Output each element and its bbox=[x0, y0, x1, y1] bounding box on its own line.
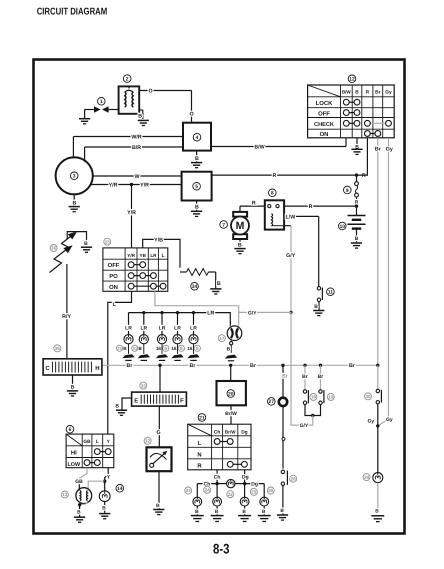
ground (battery) bbox=[351, 229, 362, 249]
component label 10 bbox=[339, 222, 347, 230]
ground (motor) bbox=[234, 239, 245, 254]
wire W/R bbox=[73, 134, 183, 158]
svg-text:B: B bbox=[84, 241, 88, 247]
wire headlight common bbox=[78, 501, 88, 507]
wire Gy (gray) main switch bbox=[378, 138, 393, 426]
wire Br/W bbox=[225, 405, 237, 424]
turn signal lamp 25 bbox=[240, 497, 249, 506]
svg-text:B: B bbox=[102, 505, 106, 511]
wire G/Y to brake switches bbox=[291, 312, 313, 429]
svg-text:2: 2 bbox=[126, 76, 129, 82]
svg-text:6: 6 bbox=[69, 427, 72, 433]
svg-text:R: R bbox=[355, 199, 359, 205]
svg-text:22: 22 bbox=[228, 492, 234, 497]
wire Y/R down to lights switch bbox=[127, 185, 136, 248]
ground (sender 33) bbox=[115, 398, 131, 415]
lights switch table 15 bbox=[103, 248, 168, 291]
svg-text:R: R bbox=[309, 204, 313, 210]
horn switch 28 bbox=[281, 470, 287, 485]
wire horn to switch bbox=[282, 407, 285, 469]
svg-text:B: B bbox=[180, 346, 183, 351]
wire gray lights to flasher bbox=[155, 291, 239, 326]
svg-text:R/Y: R/Y bbox=[62, 314, 71, 320]
svg-text:GB: GB bbox=[83, 439, 91, 445]
svg-text:HI: HI bbox=[71, 450, 77, 457]
svg-text:B: B bbox=[115, 403, 119, 409]
ground (lamp 26) bbox=[258, 506, 271, 521]
wire Ch to lamp 23 bbox=[197, 482, 217, 498]
svg-text:33: 33 bbox=[117, 346, 122, 351]
svg-text:9: 9 bbox=[346, 188, 349, 194]
svg-text:28: 28 bbox=[291, 476, 297, 481]
wire Dg to lamp 26 bbox=[245, 482, 265, 498]
node LR junction 3 bbox=[160, 311, 163, 314]
component label 4 bbox=[193, 133, 201, 141]
svg-text:25: 25 bbox=[251, 489, 257, 494]
svg-text:OFF: OFF bbox=[318, 110, 330, 117]
svg-text:CIRCUIT DIAGRAM: CIRCUIT DIAGRAM bbox=[37, 6, 108, 17]
svg-text:Br: Br bbox=[302, 374, 308, 380]
ground (lamp 24) bbox=[211, 506, 224, 521]
wire Br to switch 18 bbox=[302, 365, 308, 390]
ground (resistor) bbox=[210, 272, 221, 294]
component label 3 bbox=[70, 172, 78, 180]
svg-text:B: B bbox=[196, 346, 199, 351]
svg-text:Y/R: Y/R bbox=[140, 182, 149, 188]
meter lamp bulb 2 bbox=[139, 335, 148, 344]
ground (magneto) bbox=[69, 194, 80, 211]
svg-text:Ch: Ch bbox=[214, 429, 220, 435]
wire to lamp 25 bbox=[244, 484, 246, 498]
wire bbox=[85, 109, 94, 111]
svg-text:Br: Br bbox=[375, 147, 381, 153]
wire Br (gray) main switch bbox=[375, 138, 381, 365]
wire Br to switch 30 bbox=[377, 365, 379, 389]
svg-text:ON: ON bbox=[109, 284, 118, 291]
component label 36 bbox=[50, 245, 57, 252]
svg-text:30: 30 bbox=[365, 394, 371, 399]
meter lamp bulb 5 bbox=[189, 335, 198, 344]
svg-text:Y/R: Y/R bbox=[127, 210, 136, 216]
svg-text:W/R: W/R bbox=[131, 134, 141, 140]
headlight bulb 13 bbox=[76, 488, 92, 504]
svg-text:H: H bbox=[95, 365, 99, 372]
svg-text:26: 26 bbox=[268, 488, 274, 493]
component label 18 bbox=[310, 393, 317, 400]
component label 21 bbox=[198, 414, 206, 422]
ground (switch 11) bbox=[313, 302, 324, 316]
wire to headlight hi bbox=[88, 481, 105, 489]
border frame bbox=[34, 60, 405, 534]
starter relay 8 bbox=[265, 200, 284, 229]
svg-text:L: L bbox=[96, 439, 99, 445]
ground (unit 4) bbox=[191, 151, 202, 168]
component label 17 bbox=[218, 335, 225, 342]
battery 10 bbox=[348, 206, 366, 229]
node R junction bbox=[355, 173, 358, 176]
svg-text:ON: ON bbox=[320, 131, 329, 138]
ground (lamp 14) bbox=[99, 502, 110, 519]
ground (horn switch) bbox=[277, 486, 288, 521]
svg-text:5: 5 bbox=[195, 184, 198, 190]
svg-text:M: M bbox=[236, 220, 245, 232]
svg-text:PO: PO bbox=[109, 273, 118, 280]
component label 1 bbox=[98, 98, 106, 106]
wire LR drop 2 bbox=[140, 313, 147, 335]
svg-text:36: 36 bbox=[51, 246, 57, 251]
ground wedge (lamp 4) bbox=[171, 344, 183, 361]
node LR junction 5 bbox=[192, 311, 195, 314]
svg-text:Br: Br bbox=[375, 90, 380, 96]
ground (rectifier) bbox=[191, 201, 202, 217]
node LR junction 4 bbox=[176, 311, 179, 314]
turn signal lamp 26 bbox=[260, 497, 269, 506]
wire Br bus bbox=[102, 363, 378, 369]
svg-text:B: B bbox=[355, 236, 359, 242]
svg-text:L: L bbox=[198, 440, 202, 447]
node Dg junction bbox=[243, 482, 246, 485]
svg-text:10: 10 bbox=[340, 224, 346, 230]
wire Y/B to resistor bbox=[143, 237, 180, 267]
svg-text:R: R bbox=[362, 173, 366, 179]
svg-text:B/W: B/W bbox=[342, 90, 352, 95]
svg-text:Br: Br bbox=[127, 363, 133, 369]
svg-text:16: 16 bbox=[187, 346, 193, 351]
svg-text:Dg: Dg bbox=[241, 429, 247, 435]
magneto 3 bbox=[56, 157, 93, 194]
svg-text:B: B bbox=[238, 243, 242, 249]
svg-text:B: B bbox=[77, 509, 81, 515]
svg-text:3: 3 bbox=[73, 174, 76, 180]
svg-text:L/W: L/W bbox=[286, 214, 296, 220]
component label 2 bbox=[123, 75, 131, 83]
component label 32 bbox=[144, 437, 151, 444]
component label 34 bbox=[191, 282, 199, 290]
svg-text:16: 16 bbox=[171, 346, 177, 351]
node Ch junction bbox=[215, 482, 218, 485]
ground wedge (lamp 1) bbox=[122, 344, 134, 361]
component label 5 bbox=[193, 182, 201, 190]
fuse 9 bbox=[355, 182, 359, 206]
svg-text:GB: GB bbox=[75, 479, 83, 485]
svg-text:B: B bbox=[72, 200, 76, 206]
svg-text:B: B bbox=[375, 508, 379, 514]
svg-text:LR: LR bbox=[125, 326, 132, 332]
component label 20 bbox=[227, 390, 235, 398]
wire W bbox=[93, 174, 182, 180]
svg-text:B: B bbox=[138, 113, 142, 119]
meter lamp bulb 1 bbox=[124, 335, 133, 344]
lamp label 3 bbox=[156, 345, 169, 351]
component label 28 bbox=[290, 475, 297, 482]
svg-text:B: B bbox=[227, 346, 231, 352]
svg-text:Br/W: Br/W bbox=[225, 429, 236, 434]
lamp label 5 bbox=[187, 345, 200, 351]
wire Dg drop bbox=[242, 470, 249, 484]
node switch join bbox=[311, 414, 314, 417]
svg-text:1: 1 bbox=[100, 99, 103, 105]
svg-text:35: 35 bbox=[55, 346, 61, 351]
svg-text:34: 34 bbox=[192, 284, 198, 290]
switch 30 bbox=[376, 389, 381, 404]
svg-text:LOCK: LOCK bbox=[316, 100, 333, 107]
meter lamp bulb 3 bbox=[157, 335, 166, 344]
wire B/W to main switch bbox=[211, 138, 346, 151]
wire O coil to unit 4 bbox=[139, 88, 193, 122]
ground (flasher) bbox=[225, 340, 237, 361]
lamp label 2 bbox=[132, 345, 143, 351]
wire to tail lamp bbox=[377, 426, 379, 473]
svg-text:LR: LR bbox=[159, 326, 166, 332]
svg-text:Br: Br bbox=[190, 363, 196, 369]
wire Y/R bbox=[91, 182, 182, 188]
svg-text:G/Y: G/Y bbox=[300, 423, 309, 429]
title text CIRCUIT DIAGRAM bbox=[37, 6, 108, 17]
wire LR drop 5 bbox=[190, 313, 197, 335]
svg-text:E: E bbox=[134, 398, 138, 405]
svg-text:4: 4 bbox=[196, 135, 199, 141]
wire switch 30 down bbox=[368, 404, 393, 426]
wire to lamp 24 bbox=[216, 484, 218, 498]
svg-text:LOW: LOW bbox=[68, 462, 81, 468]
node battery junction bbox=[355, 204, 358, 207]
wire G/Y relay coil bbox=[284, 226, 296, 314]
ground wedge (lamp 5) bbox=[187, 344, 199, 361]
node Br bus junction 4 bbox=[303, 364, 306, 367]
svg-text:O: O bbox=[189, 112, 193, 118]
wire Ch drop bbox=[214, 470, 221, 484]
svg-text:Br: Br bbox=[318, 374, 324, 380]
wire sender to Br bus bbox=[159, 365, 161, 392]
wire GB to headlight bbox=[75, 468, 87, 489]
svg-text:W: W bbox=[135, 174, 140, 180]
svg-text:7: 7 bbox=[222, 222, 225, 228]
svg-text:B: B bbox=[280, 508, 284, 514]
node LR junction 2 bbox=[142, 311, 145, 314]
component label 26 bbox=[267, 487, 274, 494]
component label 30 bbox=[365, 393, 372, 400]
svg-text:B: B bbox=[262, 509, 266, 515]
svg-text:B: B bbox=[71, 384, 75, 390]
wire B/R bbox=[85, 145, 183, 161]
ground (tail lamp) bbox=[371, 483, 384, 522]
ground (lamp 23) bbox=[191, 506, 204, 521]
lamp label 1 bbox=[116, 345, 127, 351]
svg-text:R: R bbox=[366, 90, 370, 96]
flasher relay 17 bbox=[227, 326, 242, 341]
svg-text:G: G bbox=[157, 430, 161, 436]
node Gy junction bbox=[376, 424, 379, 427]
node Br bus junction 6 bbox=[376, 364, 379, 367]
svg-text:YB: YB bbox=[140, 253, 147, 258]
svg-text:B: B bbox=[215, 509, 219, 515]
svg-text:29: 29 bbox=[364, 475, 370, 480]
wire B main switch ground bbox=[355, 138, 359, 151]
svg-text:33: 33 bbox=[141, 383, 147, 388]
ground (spark plug) bbox=[79, 110, 90, 124]
ground (coil) bbox=[138, 120, 149, 125]
CDI unit 4 bbox=[183, 123, 211, 151]
horn 27 bbox=[279, 398, 287, 406]
component label 24 bbox=[204, 486, 211, 493]
svg-text:G/Y: G/Y bbox=[248, 310, 257, 316]
main switch table 12 bbox=[308, 85, 395, 138]
wire L/W bbox=[284, 214, 319, 286]
node Br bus junction 5 bbox=[319, 364, 322, 367]
svg-text:8: 8 bbox=[271, 191, 274, 197]
svg-text:11: 11 bbox=[328, 290, 334, 296]
component label 25 bbox=[250, 488, 257, 495]
turn signal lamp 23 bbox=[193, 497, 202, 506]
svg-text:G/Y: G/Y bbox=[286, 253, 296, 259]
component label 11 bbox=[327, 288, 335, 296]
svg-text:21: 21 bbox=[199, 415, 205, 421]
ground (gauge) bbox=[153, 471, 164, 514]
dimmer switch table 6 bbox=[66, 434, 114, 468]
wire R to fuse bbox=[212, 173, 366, 179]
svg-text:8-3: 8-3 bbox=[213, 541, 230, 557]
wire LR drop 3 bbox=[159, 313, 166, 335]
ground (arrester) bbox=[81, 247, 92, 252]
svg-text:12: 12 bbox=[349, 77, 355, 83]
page number 8-3 bbox=[213, 541, 230, 557]
indicator lamp 22 bbox=[217, 479, 245, 487]
ground wedge (lamp 2) bbox=[138, 344, 150, 361]
fuel gauge 32 bbox=[147, 447, 172, 471]
svg-text:24: 24 bbox=[205, 487, 211, 492]
starter motor 7 bbox=[231, 212, 249, 239]
svg-text:20: 20 bbox=[228, 391, 234, 397]
wire Br to switch 19 bbox=[318, 365, 324, 390]
svg-text:B: B bbox=[314, 304, 318, 310]
rectifier regulator 5 bbox=[182, 172, 212, 201]
meter lamp bulb 4 bbox=[173, 335, 182, 344]
svg-text:18: 18 bbox=[311, 395, 317, 400]
wire L to dimmer switch bbox=[108, 291, 132, 434]
svg-text:Y/R: Y/R bbox=[127, 253, 135, 258]
svg-text:17: 17 bbox=[219, 336, 225, 341]
svg-text:Br: Br bbox=[250, 363, 256, 369]
wire LR drop 1 bbox=[125, 313, 132, 335]
turn switch table 21 bbox=[188, 424, 251, 470]
svg-text:Gy: Gy bbox=[368, 419, 375, 425]
ground (main switch) bbox=[351, 149, 362, 154]
svg-text:14: 14 bbox=[117, 486, 123, 492]
svg-text:Gy: Gy bbox=[386, 147, 393, 153]
wire Y drop bbox=[105, 468, 111, 482]
node Br bus junction 2 bbox=[229, 364, 232, 367]
svg-text:CHECK: CHECK bbox=[314, 122, 334, 128]
component label 15 bbox=[104, 238, 111, 245]
svg-text:27: 27 bbox=[269, 399, 275, 405]
ground wedge (lamp 3) bbox=[156, 344, 168, 361]
meter lamp 14 bbox=[99, 491, 110, 502]
brake switch 18 bbox=[303, 390, 308, 405]
svg-text:13: 13 bbox=[62, 492, 68, 497]
component label 27 bbox=[268, 398, 276, 406]
svg-text:R: R bbox=[197, 463, 202, 470]
ground (headlight) bbox=[74, 505, 85, 523]
svg-text:B: B bbox=[156, 503, 160, 509]
node Y/R junction bbox=[130, 183, 133, 186]
relay unit 20 bbox=[217, 381, 246, 405]
svg-text:LR: LR bbox=[174, 326, 181, 332]
node Br bus junction 1 bbox=[158, 364, 161, 367]
svg-text:19: 19 bbox=[328, 395, 334, 400]
svg-text:LR: LR bbox=[190, 326, 197, 332]
svg-text:LR: LR bbox=[207, 311, 214, 317]
svg-text:Dg: Dg bbox=[251, 482, 258, 488]
wire arrester to ground bbox=[67, 232, 88, 247]
wire R motor to relay bbox=[240, 200, 265, 212]
component label 8 bbox=[269, 189, 277, 197]
svg-text:32: 32 bbox=[145, 438, 151, 443]
svg-text:B: B bbox=[217, 281, 221, 287]
ignition coil 2 bbox=[119, 86, 140, 113]
svg-text:B: B bbox=[355, 90, 359, 96]
component label 22 bbox=[227, 491, 234, 498]
spark plug gap 1 bbox=[94, 106, 119, 112]
component label 12 bbox=[348, 75, 356, 83]
component label 23 bbox=[185, 487, 192, 494]
svg-text:23: 23 bbox=[186, 488, 192, 493]
component label 6 bbox=[66, 426, 74, 434]
component label 14 bbox=[116, 485, 124, 493]
svg-text:Y/R: Y/R bbox=[109, 182, 118, 188]
svg-text:B/R: B/R bbox=[132, 145, 141, 151]
svg-text:Dg: Dg bbox=[242, 474, 249, 480]
svg-text:B: B bbox=[164, 346, 167, 351]
component label 7 bbox=[220, 221, 228, 229]
svg-text:Br: Br bbox=[282, 373, 288, 379]
svg-text:F: F bbox=[180, 398, 184, 405]
svg-text:Br/W: Br/W bbox=[225, 411, 237, 417]
component label 19 bbox=[327, 393, 334, 400]
lamp label 4 bbox=[171, 345, 184, 351]
component label 33 bbox=[140, 382, 147, 389]
wire R main switch bbox=[357, 138, 368, 175]
svg-text:C: C bbox=[45, 365, 50, 372]
svg-text:B: B bbox=[242, 509, 246, 515]
svg-text:Gy: Gy bbox=[385, 90, 392, 96]
node Br bus junction 3 bbox=[281, 364, 284, 367]
wire bus to relay unit bbox=[230, 365, 232, 381]
wire fuse top bbox=[356, 175, 358, 182]
wire to lamp 14 bbox=[104, 481, 106, 491]
svg-text:Ch: Ch bbox=[214, 474, 221, 480]
switch 11 bbox=[317, 287, 322, 302]
resistor 34 bbox=[180, 269, 216, 276]
svg-text:15: 15 bbox=[105, 239, 111, 244]
svg-text:R: R bbox=[252, 200, 256, 206]
svg-text:B/W: B/W bbox=[254, 144, 264, 150]
ground (lamp 25) bbox=[238, 506, 251, 521]
svg-text:Y/B: Y/B bbox=[154, 237, 163, 243]
turn signal lamp 24 bbox=[213, 497, 222, 506]
wire G/Y to flasher bbox=[239, 310, 291, 316]
wire LR bus bbox=[129, 311, 231, 326]
svg-text:OFF: OFF bbox=[108, 262, 120, 269]
wire switch join bbox=[305, 405, 321, 416]
ground (sender 35) bbox=[67, 375, 78, 396]
component label 9 bbox=[344, 186, 352, 194]
svg-text:16: 16 bbox=[156, 346, 162, 351]
node Y junction bbox=[103, 480, 106, 483]
component label 13 bbox=[61, 491, 68, 498]
svg-text:Br: Br bbox=[349, 363, 355, 369]
wire Br to horn bbox=[282, 365, 288, 398]
wire LR drop 4 bbox=[174, 313, 181, 335]
